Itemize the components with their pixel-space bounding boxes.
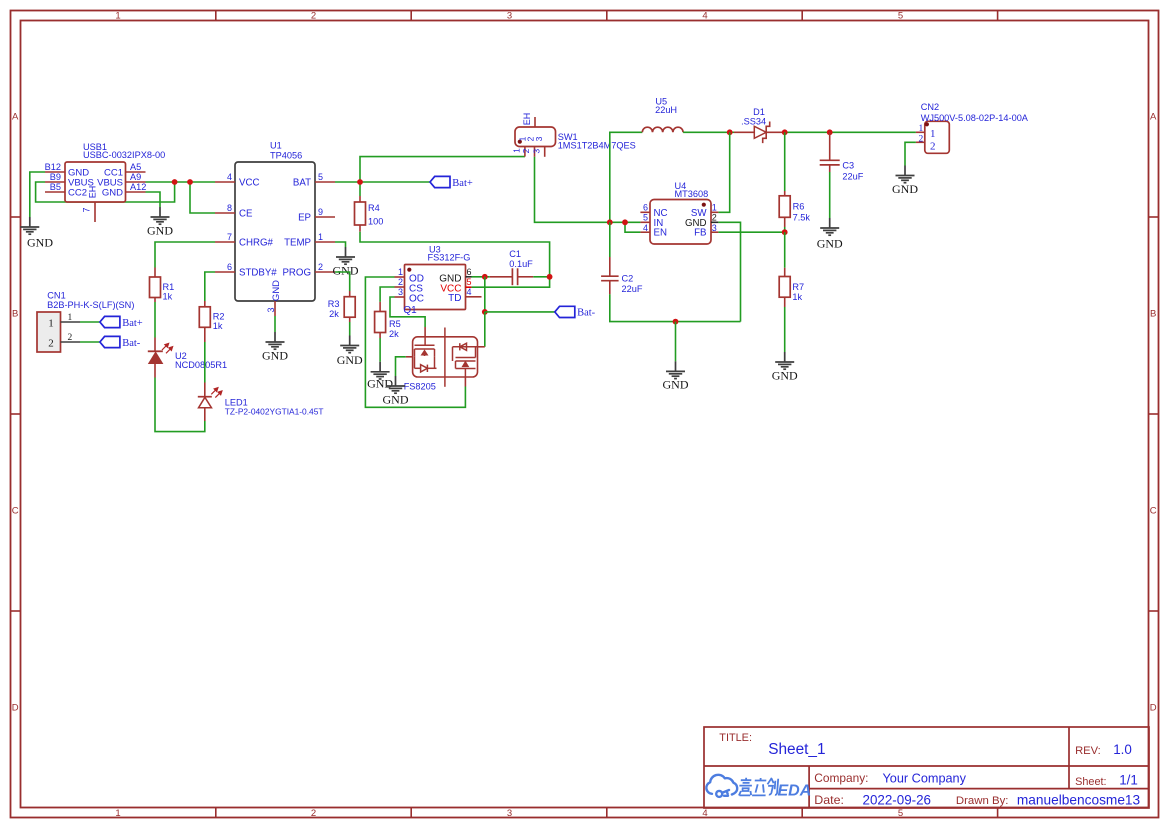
junction boost input C2 tap [607,219,613,225]
svg-text:1: 1 [68,313,73,323]
wire CN1 pin1 to Bat+ flag [80,321,100,323]
svg-text:7: 7 [82,207,92,212]
USB1 pin A12 [126,191,146,193]
junction FB node [782,229,788,235]
net flag Bat- [555,306,575,317]
svg-text:C3: C3 [842,161,854,171]
wire CN1 pin2 to Bat- flag [80,341,100,343]
U4 pin 4 EN [640,231,650,233]
svg-text:6: 6 [227,262,232,272]
wire CHRG# to R1 [155,242,215,268]
svg-text:MT3608: MT3608 [675,189,709,199]
svg-text:NCD0805R1: NCD0805R1 [175,360,227,370]
svg-text:TEMP: TEMP [284,238,311,249]
junction VBUS node 1 [172,179,178,185]
svg-text:OC: OC [409,293,424,304]
capacitor C2 22uF [609,222,611,257]
resistor R1 [154,268,156,278]
svg-text:7: 7 [227,232,232,242]
svg-text:3: 3 [507,11,512,22]
svg-text:D: D [1150,703,1157,714]
svg-text:3: 3 [531,149,541,154]
capacitor C1 0.1uF [472,276,490,278]
U3 pin 1 OD [395,276,405,278]
svg-text:B5: B5 [50,182,61,192]
svg-text:R6: R6 [793,202,805,212]
junction D1/R6 node [782,129,788,135]
svg-text:A5: A5 [130,162,141,172]
resistor R2 [204,301,206,307]
wire R5 to ground [379,338,381,362]
wire SW node to diode [730,131,734,133]
transistor Q1 FS8205 body [413,337,478,377]
wire net GND: B12 to ground [30,172,45,217]
resistor R4 [359,196,361,202]
svg-text:D1: D1 [753,107,765,117]
wire OC to Q1 left gate [390,297,425,327]
svg-text:GND: GND [27,236,53,250]
logo JLC EDA cloud [706,775,737,797]
ground GND (R7) [775,352,794,369]
svg-text:1: 1 [930,128,936,140]
U3 pin 4 TD [466,296,482,298]
CN2 pin 2 [916,141,925,143]
svg-text:WJ500V-5.08-02P-14-00A: WJ500V-5.08-02P-14-00A [921,113,1029,123]
wire SW1 pin2 down to boost input [535,157,610,223]
connector CN1 body [37,312,61,352]
wire PROG to R3 [335,272,350,291]
svg-text:Bat+: Bat+ [452,178,473,189]
wire U2 cathode rail [155,378,205,432]
SW1 pin 2 [534,147,536,157]
resistor R3 [349,291,351,297]
svg-text:PROG: PROG [282,268,311,279]
svg-text:2k: 2k [389,329,399,339]
svg-text:A9: A9 [130,172,141,182]
wire boost input node up to inductor rail [610,132,643,222]
svg-text:6: 6 [643,202,648,212]
U3 pin 3 OC [395,296,405,298]
svg-text:4: 4 [227,172,232,182]
wire Bat- node to flag [485,311,555,313]
wire Q1 left source to ground [396,357,406,376]
svg-text:1: 1 [115,808,120,819]
IC U4 MT3608 body [650,200,711,245]
U1 pin 8 CE [215,212,235,214]
U4 pin 5 IN [640,221,650,223]
svg-text:5: 5 [643,213,648,223]
junction EN tap [622,219,628,225]
junction VBUS node 2 [187,179,193,185]
svg-text:4: 4 [702,11,707,22]
Q1 right drain pin [478,346,485,348]
svg-text:5: 5 [898,11,903,22]
capacitor C3 22uF [829,132,831,160]
Q1 right source pin [464,377,466,387]
USB1 pin B12 [45,171,65,173]
wire output rail down to R6 [784,132,786,191]
svg-text:GND: GND [147,223,173,237]
svg-text:1k: 1k [163,292,173,302]
U1 pin 1 TEMP [315,241,335,243]
svg-text:CN1: CN1 [47,291,65,301]
junction C1 right / VCC node [547,274,553,280]
svg-text:EH: EH [88,186,98,199]
U1 pin 7 CHRG# [215,241,235,243]
svg-text:R5: R5 [389,319,401,329]
SW1 pin 1 [524,147,526,157]
junction BAT node [357,179,363,185]
svg-text:R7: R7 [792,282,804,292]
wire EN loop [625,222,640,232]
wire net VBUS: B9 loop under USB1 [36,182,175,202]
svg-text:1: 1 [48,318,54,330]
svg-text:FB: FB [694,228,706,239]
USB1 pin B5 [45,191,65,193]
svg-text:CHRG#: CHRG# [239,238,274,249]
svg-text:C: C [1150,506,1157,517]
USB1 pin A9 [126,181,146,183]
svg-text:3: 3 [507,808,512,819]
U1 pin 5 BAT [315,181,335,183]
U4 pin 3 FB [711,231,718,233]
svg-text:C2: C2 [622,274,634,284]
svg-text:BAT: BAT [293,178,311,189]
svg-text:2: 2 [930,141,936,153]
ground GND (U1 pin3) [266,332,285,349]
wire C2 bottom to ground rail [610,294,741,321]
svg-text:2: 2 [311,11,316,22]
svg-text:manuelbencosme13: manuelbencosme13 [1017,793,1141,808]
svg-text:CE: CE [239,209,253,220]
svg-text:Bat+: Bat+ [122,318,143,329]
wire TEMP to ground [335,242,346,247]
title block outer [704,727,1149,808]
svg-text:9: 9 [318,207,323,217]
svg-text:2: 2 [311,808,316,819]
ground GND (USB1 B12) [20,217,39,234]
wire net BAT+: junction down to R4 [359,182,361,196]
resistor R6 [784,191,786,196]
U1 pin 6 STDBY# [215,271,235,273]
svg-text:2k: 2k [329,309,339,319]
connector CN2 body [925,121,950,153]
wire FB to divider [718,231,784,233]
svg-text:GND: GND [102,187,123,198]
svg-text:GND: GND [817,236,843,250]
U1 pin 3 GND [274,301,276,316]
svg-text:0.1uF: 0.1uF [509,259,533,269]
svg-text:5: 5 [898,808,903,819]
svg-text:FS8205: FS8205 [404,382,436,392]
svg-text:1k: 1k [792,292,802,302]
wire U4 GND pin to rail [718,222,740,321]
U1 pin 9 EP [315,216,335,218]
svg-text:2: 2 [398,277,403,287]
svg-text:STDBY#: STDBY# [239,268,277,279]
IC U1 TP4056 body [235,162,315,301]
wire net VBUS: junction to U1 CE [190,182,215,213]
U3 pin 6 GND [466,276,472,278]
CN1 pin 2 [61,341,81,343]
svg-text:U1: U1 [270,141,282,151]
svg-text:7.5k: 7.5k [793,212,811,222]
svg-text:EN: EN [654,228,667,239]
wire net BAT+: junction to Bat+ flag [360,181,430,183]
svg-text:2: 2 [919,135,924,145]
svg-text:4: 4 [702,808,707,819]
Q1 left gate pin [424,327,426,337]
wire U4 SW pin up to SW node [718,132,729,212]
svg-text:CN2: CN2 [921,102,939,112]
wire net BAT+: BAT pin to junction [335,181,360,183]
U3 pin 5 VCC [466,286,472,288]
svg-text:1k: 1k [213,321,223,331]
junction SW node [727,129,733,135]
svg-text:5: 5 [318,172,323,182]
svg-text:REV:: REV: [1075,745,1101,757]
svg-text:22uF: 22uF [622,284,643,294]
svg-text:GND: GND [383,392,409,406]
wire CN2 pin2 to ground [905,142,916,165]
svg-text:R3: R3 [328,299,340,309]
wire C3 to ground [829,172,831,218]
USB1 pin 7 (EH shield) [94,202,96,222]
svg-text:R4: R4 [368,203,380,213]
svg-text:1: 1 [398,267,403,277]
U1 pin 4 VCC [215,181,235,183]
U4 pin 6 NC [640,211,650,213]
svg-text:8: 8 [227,203,232,213]
ground GND (USB1 A12) [151,207,170,224]
logo JLC EDA text (stylized) [739,778,779,796]
net flag Bat+ [430,176,450,187]
wire FB node down to R7 [784,232,786,268]
net flag Bat- (CN1) [100,336,120,347]
wire CS to R5 [380,287,394,302]
svg-text:2: 2 [68,333,73,343]
SW1 pin 3 [544,147,546,157]
resistor R7 [784,268,786,277]
svg-text:C: C [12,506,19,517]
ground GND (R5) [371,362,390,379]
wire net GND: A12 to ground [146,192,161,207]
svg-text:1: 1 [712,202,717,212]
resistor R5 [379,302,381,312]
wire Bat- node down to Q1 drain [484,312,486,347]
svg-text:.SS34: .SS34 [741,117,766,127]
svg-text:C1: C1 [509,249,521,259]
svg-text:EDA: EDA [778,783,812,800]
svg-text:1MS1T2B4M7QES: 1MS1T2B4M7QES [558,141,636,151]
svg-text:GND: GND [772,368,798,382]
inductor U5 22uH [642,127,683,132]
svg-text:Company:: Company: [814,771,868,785]
Q1 left source pin [406,356,413,358]
svg-text:R1: R1 [163,282,175,292]
CN2 pin 1 [916,131,925,133]
svg-text:GND: GND [333,263,359,277]
wire U3 GND node down to Bat- [484,277,486,312]
svg-text:4: 4 [467,287,472,297]
wire R3 to ground [349,322,351,336]
svg-text:1.0: 1.0 [1113,742,1132,757]
svg-text:5: 5 [467,277,472,287]
svg-text:Your Company: Your Company [883,771,967,785]
svg-text:6: 6 [467,267,472,277]
svg-text:B12: B12 [45,162,61,172]
junction C3 node [827,129,833,135]
svg-text:GND: GND [262,348,288,362]
svg-text:B2B-PH-K-S(LF)(SN): B2B-PH-K-S(LF)(SN) [47,300,134,310]
svg-text:3: 3 [712,223,717,233]
svg-text:GND: GND [337,353,363,367]
svg-text:FS312F-G: FS312F-G [428,253,471,263]
wire R1 to U2 LED [154,302,156,338]
svg-text:2022-09-26: 2022-09-26 [863,792,932,807]
CN1 pin 1 [61,321,81,323]
svg-text:2: 2 [521,148,531,153]
svg-text:GND: GND [892,182,918,196]
diode D1 SS34 (schottky) [734,131,754,133]
svg-text:R2: R2 [213,311,225,321]
ground GND (C2 rail) [666,361,685,378]
svg-text:1: 1 [512,148,522,153]
svg-text:TITLE:: TITLE: [719,732,752,744]
ground GND (Q1 source) [386,376,405,393]
svg-text:Date:: Date: [814,793,844,807]
net flag Bat+ (CN1) [100,316,120,327]
USB1 pin A5 [126,171,146,173]
svg-text:CC2: CC2 [68,187,87,198]
LED LED1 [204,383,206,397]
svg-text:EH: EH [522,113,532,126]
ground GND (CN2) [896,166,915,183]
svg-text:3: 3 [398,287,403,297]
ground GND (C3) [820,218,839,235]
wire rail node down to ground [675,322,677,362]
svg-text:TD: TD [448,293,461,304]
wire IN node junctions [610,221,641,223]
wire inductor to SW node [683,131,730,133]
wire net BAT+: junction up to SW1 pin1 [360,157,525,182]
svg-text:2: 2 [48,338,54,350]
svg-text:D: D [12,703,19,714]
Q1 internal dual-MOSFET drawing [415,328,478,387]
wire U1 GND pin down [274,316,276,332]
junction C1 left / U3 GND node [482,274,488,280]
wire net VBUS: A9 to U1 VCC [146,181,216,183]
svg-text:22uH: 22uH [655,105,677,115]
svg-text:B: B [12,309,18,320]
svg-text:2: 2 [318,262,323,272]
LED U2 (charge indicator) [154,338,156,352]
LED1 arrows [211,388,222,398]
svg-text:A12: A12 [130,182,146,192]
svg-text:Bat-: Bat- [577,308,596,319]
ground GND (R3) [340,336,359,353]
svg-text:4: 4 [643,223,648,233]
svg-text:1: 1 [115,11,120,22]
wire R2 to LED1 [204,342,206,383]
U2 LED arrows [162,343,173,353]
wire net VDD: R4 bottom to C1 right [360,232,550,288]
svg-text:B: B [1150,309,1156,320]
svg-text:Q1: Q1 [403,305,417,316]
wire OD to Q1 gate rail [365,277,465,407]
wire R6 to FB node [784,227,786,232]
junction Bat- node [482,309,488,315]
SW1 pin-1 marker [518,140,522,144]
U3 pin 2 CS [395,286,405,288]
ground GND (U1 TEMP) [336,247,355,264]
IC U3 FS312F-G body [405,265,466,310]
svg-text:100: 100 [368,217,383,227]
SW1 top pin EH [534,117,536,127]
svg-text:TP4056: TP4056 [270,151,302,161]
junction ground rail node [673,319,679,325]
svg-text:Drawn By:: Drawn By: [956,795,1009,807]
svg-text:3: 3 [534,136,544,141]
svg-text:Bat-: Bat- [122,338,141,349]
U4 pin 1 SW [711,211,718,213]
svg-text:1: 1 [318,232,323,242]
svg-text:EP: EP [298,213,311,224]
connector USB1 body [65,162,126,202]
U4 pin 2 GND [711,221,718,223]
svg-text:1/1: 1/1 [1119,773,1138,788]
svg-text:A: A [12,112,19,123]
U4 pin-1 marker [702,203,706,207]
svg-text:Sheet_1: Sheet_1 [768,741,825,758]
U3 pin-1 marker [407,268,411,272]
svg-text:3: 3 [266,307,276,312]
wire diode to output rail [785,131,916,133]
svg-text:B9: B9 [50,172,61,182]
svg-text:1: 1 [919,124,924,134]
svg-text:GND: GND [663,378,689,392]
svg-text:USBC-0032IPX8-00: USBC-0032IPX8-00 [83,150,165,160]
svg-text:22uF: 22uF [842,172,863,182]
wire R7 to ground [784,307,786,352]
svg-text:TZ-P2-0402YGTIA1-0.45T: TZ-P2-0402YGTIA1-0.45T [225,406,324,416]
USB1 pin B9 [45,181,65,183]
svg-text:Sheet:: Sheet: [1075,776,1107,788]
svg-text:GND: GND [271,280,282,301]
svg-text:A: A [1150,112,1157,123]
U1 pin 2 PROG [315,271,335,273]
svg-text:2: 2 [712,213,717,223]
wire STDBY# to R2 [205,272,215,301]
svg-text:VCC: VCC [239,178,259,189]
switch SW1 body [515,127,556,147]
CN2 pin-1 marker [925,122,929,126]
